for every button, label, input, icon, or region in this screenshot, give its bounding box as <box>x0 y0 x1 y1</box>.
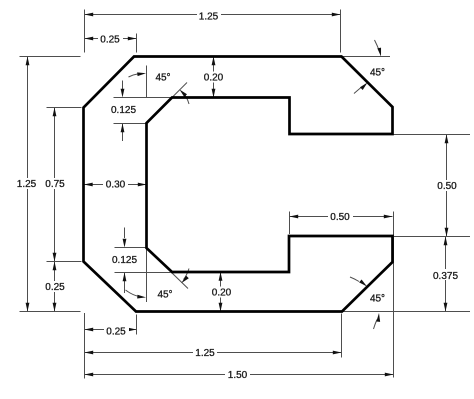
svg-text:0.125: 0.125 <box>112 255 137 266</box>
svg-text:0.25: 0.25 <box>106 326 126 337</box>
svg-text:0.30: 0.30 <box>106 180 126 191</box>
svg-text:0.50: 0.50 <box>437 181 457 192</box>
svg-text:45°: 45° <box>370 68 385 79</box>
svg-text:45°: 45° <box>370 294 385 305</box>
svg-text:0.75: 0.75 <box>45 179 65 190</box>
svg-text:0.25: 0.25 <box>45 282 65 293</box>
svg-text:0.50: 0.50 <box>330 212 350 223</box>
svg-text:1.25: 1.25 <box>195 348 215 359</box>
svg-text:0.125: 0.125 <box>111 105 136 116</box>
svg-text:0.20: 0.20 <box>204 73 224 84</box>
svg-text:45°: 45° <box>155 73 170 84</box>
svg-text:0.25: 0.25 <box>100 34 120 45</box>
svg-text:1.50: 1.50 <box>228 370 248 381</box>
svg-text:1.25: 1.25 <box>17 179 37 190</box>
svg-text:1.25: 1.25 <box>199 11 219 22</box>
svg-text:45°: 45° <box>157 290 172 301</box>
svg-text:0.20: 0.20 <box>212 288 232 299</box>
svg-text:0.375: 0.375 <box>433 271 458 282</box>
